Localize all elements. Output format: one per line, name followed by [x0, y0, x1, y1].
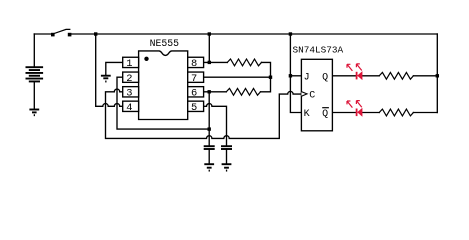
svg-text:NE555: NE555: [150, 38, 180, 49]
svg-text:J: J: [304, 72, 310, 83]
svg-text:Q: Q: [322, 72, 328, 83]
svg-text:C: C: [309, 91, 315, 102]
svg-text:2: 2: [126, 73, 132, 85]
svg-text:1: 1: [126, 58, 132, 70]
svg-text:SN74LS73A: SN74LS73A: [293, 45, 344, 56]
svg-text:4: 4: [126, 102, 132, 114]
svg-text:Q: Q: [322, 109, 328, 120]
svg-text:8: 8: [191, 58, 197, 70]
svg-text:7: 7: [191, 73, 197, 85]
svg-text:5: 5: [191, 102, 197, 114]
svg-text:6: 6: [191, 88, 197, 100]
svg-text:3: 3: [126, 88, 132, 100]
svg-text:K: K: [304, 109, 310, 120]
